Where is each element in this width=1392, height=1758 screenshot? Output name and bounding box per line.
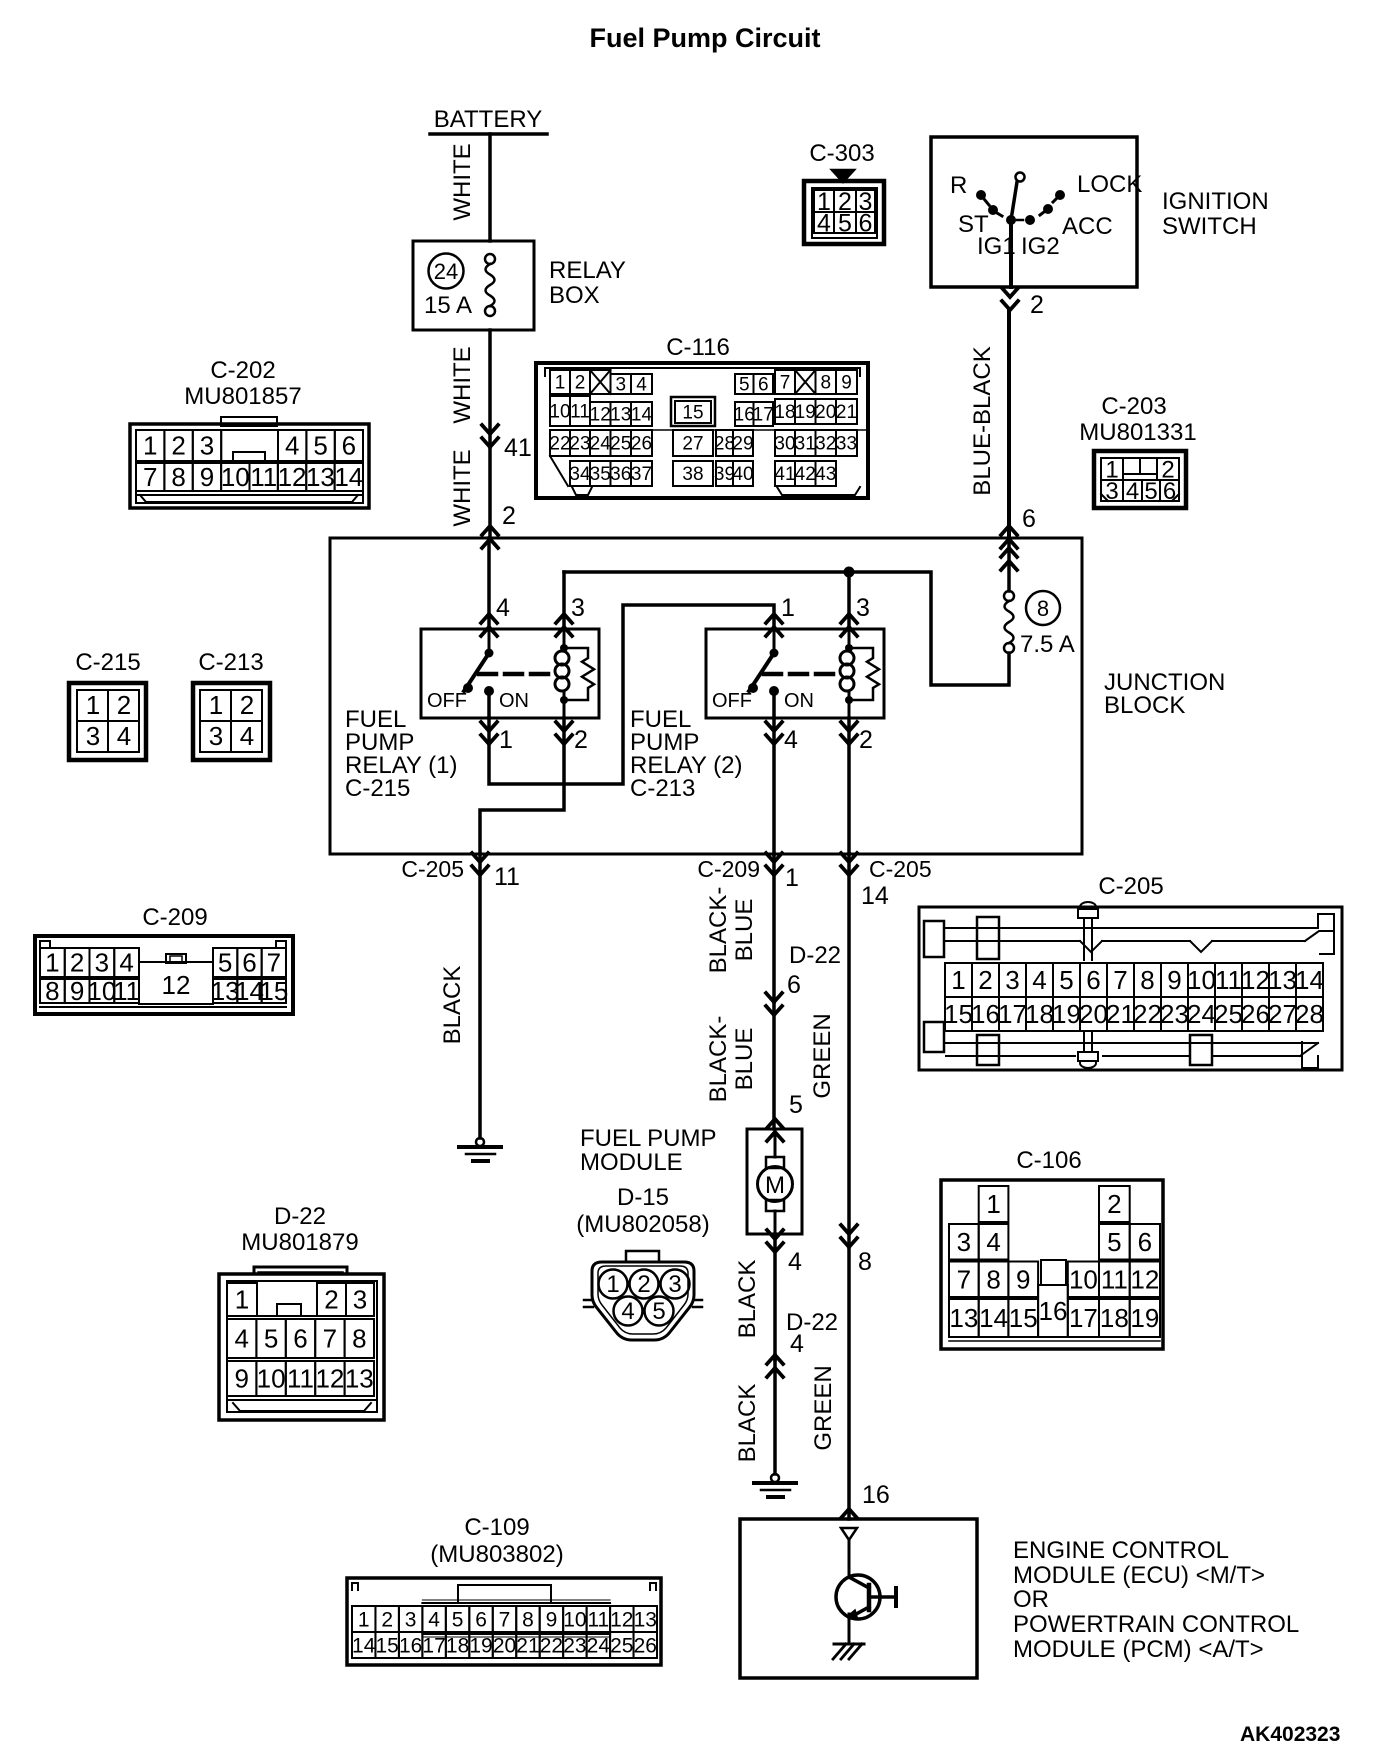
svg-text:13: 13 — [306, 462, 335, 492]
connector C-106 pins 7-12 — [949, 1262, 979, 1298]
svg-text:9: 9 — [234, 1364, 248, 1394]
wire battery to relay box (WHITE) — [488, 134, 492, 241]
svg-text:1: 1 — [358, 1608, 370, 1631]
svg-text:18: 18 — [1025, 999, 1054, 1029]
svg-text:14: 14 — [861, 882, 889, 910]
svg-text:42: 42 — [795, 464, 816, 485]
svg-text:4: 4 — [784, 726, 798, 754]
svg-text:8: 8 — [858, 1248, 872, 1276]
wire fuel pump module pin 4 (BLACK) — [773, 1234, 777, 1360]
connector D-15 body — [626, 1251, 659, 1262]
svg-text:43: 43 — [815, 464, 836, 485]
svg-text:4: 4 — [428, 1608, 440, 1631]
svg-text:38: 38 — [682, 464, 703, 485]
svg-text:D-15: D-15 — [617, 1184, 669, 1211]
svg-text:5: 5 — [264, 1324, 278, 1354]
svg-text:LOCK: LOCK — [1077, 171, 1142, 198]
svg-text:10: 10 — [221, 462, 250, 492]
svg-text:19: 19 — [795, 402, 816, 423]
svg-text:12: 12 — [162, 970, 191, 1000]
svg-text:2: 2 — [117, 690, 131, 720]
connector C-106 pin 1 — [979, 1186, 1009, 1222]
relay ON contact — [769, 686, 779, 696]
svg-text:24: 24 — [434, 259, 458, 284]
svg-text:C-215: C-215 — [345, 775, 410, 802]
connector C-116 body — [536, 363, 868, 498]
svg-text:21: 21 — [836, 402, 857, 423]
svg-text:4: 4 — [621, 1298, 634, 1325]
svg-text:10: 10 — [563, 1608, 586, 1631]
svg-text:18: 18 — [446, 1634, 469, 1657]
svg-text:OFF: OFF — [427, 690, 467, 712]
connector C-109 pins 14-26 — [352, 1632, 375, 1658]
svg-text:26: 26 — [634, 1634, 657, 1657]
svg-text:6: 6 — [1086, 965, 1100, 995]
svg-text:9: 9 — [1167, 965, 1181, 995]
svg-text:2: 2 — [381, 1608, 393, 1631]
svg-text:13: 13 — [345, 1364, 374, 1394]
svg-text:2: 2 — [502, 502, 516, 530]
svg-text:4: 4 — [636, 375, 647, 396]
svg-text:C-213: C-213 — [630, 775, 695, 802]
svg-text:15 A: 15 A — [424, 292, 472, 319]
svg-text:11: 11 — [1101, 1264, 1128, 1294]
connector C-205 body — [919, 907, 1342, 1070]
wire fuse 8 to relay coils — [564, 572, 1009, 685]
svg-text:D-22: D-22 — [789, 942, 841, 969]
connector C-106 pins 3-6 — [949, 1224, 979, 1260]
svg-text:MU801879: MU801879 — [241, 1229, 358, 1256]
svg-text:14: 14 — [631, 405, 653, 426]
svg-text:4: 4 — [117, 721, 131, 751]
svg-text:25: 25 — [610, 434, 631, 455]
relay box C-213 — [706, 629, 884, 718]
svg-text:21: 21 — [1106, 999, 1135, 1029]
svg-text:4: 4 — [496, 594, 510, 622]
svg-text:16: 16 — [971, 999, 1000, 1029]
svg-text:11: 11 — [113, 976, 140, 1006]
connector C-213 body — [193, 683, 270, 760]
fuse number circle 8 — [1026, 591, 1060, 625]
engine control module box — [740, 1519, 977, 1678]
svg-text:36: 36 — [610, 464, 631, 485]
svg-text:OFF: OFF — [712, 690, 752, 712]
svg-text:12: 12 — [610, 1608, 633, 1631]
svg-text:15: 15 — [944, 999, 973, 1029]
svg-text:ACC: ACC — [1062, 213, 1113, 240]
svg-text:1: 1 — [143, 431, 157, 461]
relay pin arrows bottom — [766, 722, 782, 731]
connector D-22 body — [254, 1267, 347, 1274]
svg-text:3: 3 — [615, 375, 626, 396]
svg-text:1: 1 — [86, 690, 100, 720]
connector C-109 body — [347, 1578, 661, 1665]
svg-text:6: 6 — [758, 375, 769, 396]
svg-text:15: 15 — [682, 403, 703, 424]
svg-text:28: 28 — [1295, 999, 1324, 1029]
svg-text:5: 5 — [1144, 478, 1157, 505]
chassis ground in ECM — [834, 1643, 864, 1646]
svg-text:16: 16 — [399, 1634, 422, 1657]
svg-text:34: 34 — [569, 464, 591, 485]
svg-text:1: 1 — [209, 690, 223, 720]
connector D-15 pin circles — [599, 1270, 628, 1299]
connector C-202 body — [221, 417, 277, 426]
svg-text:BATTERY: BATTERY — [434, 106, 542, 133]
svg-text:23: 23 — [1160, 999, 1189, 1029]
svg-text:14: 14 — [979, 1303, 1008, 1333]
svg-text:15: 15 — [1009, 1303, 1038, 1333]
wire coil bus to relay1 pin 3 — [562, 572, 566, 629]
svg-text:C-202: C-202 — [210, 357, 275, 384]
svg-text:21: 21 — [516, 1634, 539, 1657]
svg-text:27: 27 — [682, 434, 703, 455]
svg-text:23: 23 — [569, 434, 590, 455]
svg-text:11: 11 — [570, 402, 590, 423]
wire C-205 pin 14 to C-106 pin 8 (GREEN) — [847, 854, 851, 1247]
svg-text:12: 12 — [1130, 1264, 1159, 1294]
svg-text:1: 1 — [499, 726, 513, 754]
svg-text:2: 2 — [575, 373, 586, 394]
svg-text:BLACK-: BLACK- — [705, 1016, 732, 1103]
svg-text:IG2: IG2 — [1021, 233, 1060, 260]
svg-text:25: 25 — [1214, 999, 1243, 1029]
svg-text:14: 14 — [352, 1634, 376, 1657]
svg-text:17: 17 — [422, 1634, 445, 1657]
svg-text:2: 2 — [70, 948, 84, 978]
relay box — [413, 241, 534, 330]
connector D-22 pins row 3 — [227, 1361, 256, 1396]
svg-text:18: 18 — [774, 402, 795, 423]
svg-text:ON: ON — [499, 690, 529, 712]
svg-text:35: 35 — [590, 464, 611, 485]
connector C-106 body — [941, 1180, 1163, 1349]
svg-text:5: 5 — [313, 431, 327, 461]
connector C-303 index arrow — [832, 170, 854, 182]
svg-text:BOX: BOX — [549, 282, 600, 309]
svg-text:2: 2 — [1107, 1189, 1121, 1219]
svg-text:1: 1 — [235, 1285, 249, 1315]
connector C-116 pins 34-40 row — [570, 461, 590, 486]
junction exit C-205 pin 14 — [841, 853, 857, 862]
svg-text:33: 33 — [836, 434, 857, 455]
connector C-116 pins 16-21 row — [735, 402, 754, 426]
svg-text:6: 6 — [1163, 478, 1176, 505]
wire relay2 pin 4 down — [772, 718, 776, 854]
relay coil — [848, 629, 851, 651]
svg-text:10: 10 — [1069, 1264, 1098, 1294]
svg-text:17: 17 — [753, 405, 774, 426]
svg-text:7: 7 — [499, 1608, 511, 1631]
svg-text:15: 15 — [259, 976, 288, 1006]
relay pin arrows top — [481, 614, 497, 623]
connector C-106 pins 13-19 — [949, 1299, 979, 1337]
svg-text:22: 22 — [549, 434, 570, 455]
svg-text:8: 8 — [986, 1264, 1000, 1294]
svg-text:1: 1 — [781, 594, 795, 622]
svg-text:1: 1 — [785, 864, 799, 892]
svg-text:3: 3 — [200, 431, 214, 461]
svg-text:WHITE: WHITE — [449, 143, 476, 220]
svg-text:13: 13 — [610, 405, 631, 426]
svg-text:5: 5 — [789, 1091, 803, 1119]
svg-text:3: 3 — [1005, 965, 1019, 995]
svg-text:11: 11 — [287, 1364, 314, 1394]
wire C-205 pin 11 to body ground (BLACK) — [478, 854, 482, 1138]
svg-text:10: 10 — [87, 976, 116, 1006]
svg-text:3: 3 — [668, 1271, 681, 1298]
svg-text:3: 3 — [571, 594, 585, 622]
svg-text:BLACK: BLACK — [734, 1260, 761, 1339]
svg-text:6: 6 — [342, 431, 356, 461]
svg-text:6: 6 — [475, 1608, 487, 1631]
svg-text:4: 4 — [1032, 965, 1046, 995]
ignition switch contact R — [976, 190, 986, 200]
connector C-209 pin 12 cavity — [139, 962, 213, 1004]
svg-text:4: 4 — [119, 948, 133, 978]
wire relay2 pin 2 down — [847, 718, 851, 854]
svg-text:BLUE-BLACK: BLUE-BLACK — [969, 346, 996, 495]
svg-text:10: 10 — [1187, 965, 1216, 995]
svg-text:2: 2 — [637, 1271, 650, 1298]
svg-text:C-303: C-303 — [809, 140, 874, 167]
fuse number circle 24 — [429, 254, 464, 289]
svg-text:2: 2 — [574, 726, 588, 754]
svg-text:11: 11 — [587, 1608, 609, 1631]
svg-text:MU801857: MU801857 — [184, 383, 301, 410]
svg-text:7: 7 — [267, 948, 281, 978]
svg-text:7: 7 — [323, 1324, 337, 1354]
fuel pump motor M — [774, 1129, 777, 1157]
svg-text:C-205: C-205 — [401, 856, 464, 882]
wire C-116 to junction block (WHITE) — [488, 447, 492, 538]
svg-text:20: 20 — [1079, 999, 1108, 1029]
connector C-205 latch bottom — [977, 1035, 999, 1065]
svg-text:BLACK: BLACK — [734, 1384, 761, 1463]
svg-text:7: 7 — [957, 1264, 971, 1294]
wire ignition switch IG1 output pin 2 (BLUE-BLACK) — [1009, 220, 1013, 287]
connector C-116 pin 15 — [671, 397, 715, 426]
svg-text:C-209: C-209 — [142, 904, 207, 931]
svg-text:BLUE: BLUE — [731, 899, 758, 962]
relay pin arrows top — [766, 614, 782, 623]
connector C-209 body — [35, 936, 293, 1014]
svg-text:MODULE (ECU) <M/T>: MODULE (ECU) <M/T> — [1013, 1562, 1265, 1589]
relay actuation dashed link — [764, 672, 841, 677]
svg-text:9: 9 — [1016, 1264, 1030, 1294]
connector C-109 pins 1-13 — [352, 1606, 375, 1632]
svg-text:3: 3 — [957, 1227, 971, 1257]
svg-text:19: 19 — [1130, 1303, 1159, 1333]
svg-text:2: 2 — [240, 690, 254, 720]
svg-text:3: 3 — [405, 1608, 417, 1631]
wire junction block top to fuse 8 — [1007, 538, 1011, 591]
svg-text:GREEN: GREEN — [810, 1365, 837, 1450]
ECM input triangle pin 16 — [841, 1528, 857, 1540]
wire relay1 pin 4 from junction top — [487, 538, 491, 629]
transistor Q driver — [836, 1575, 880, 1619]
svg-text:FUEL PUMP: FUEL PUMP — [580, 1125, 716, 1152]
svg-text:1: 1 — [951, 965, 965, 995]
ground left — [476, 1138, 484, 1146]
svg-text:8: 8 — [45, 976, 59, 1006]
ignition switch rotor lever — [1016, 173, 1025, 182]
svg-text:9: 9 — [70, 976, 84, 1006]
connector D-22 pins row 1 — [227, 1283, 257, 1316]
connector C-116 pins 1-4 row — [550, 370, 570, 394]
svg-text:7: 7 — [1113, 965, 1127, 995]
svg-text:1: 1 — [606, 1271, 619, 1298]
svg-text:9: 9 — [200, 462, 214, 492]
wire relay1 pin 2 to C-205 pin 11 — [480, 718, 564, 854]
connector D-22 pins row 2 — [227, 1319, 256, 1358]
ignition switch box — [931, 137, 1137, 287]
connector C-303 body — [804, 181, 884, 244]
svg-text:6: 6 — [787, 971, 801, 999]
svg-text:ENGINE CONTROL: ENGINE CONTROL — [1013, 1537, 1229, 1564]
fuel pump module box — [747, 1129, 802, 1234]
svg-text:29: 29 — [732, 434, 753, 455]
svg-text:24: 24 — [1187, 999, 1216, 1029]
svg-text:5: 5 — [1107, 1227, 1121, 1257]
svg-text:22: 22 — [540, 1634, 563, 1657]
svg-text:4: 4 — [234, 1324, 248, 1354]
connector C-109 hatch strips — [422, 1602, 610, 1604]
svg-text:11: 11 — [250, 462, 277, 492]
svg-text:3: 3 — [856, 594, 870, 622]
connector C-205 pins — [945, 963, 972, 997]
svg-text:SWITCH: SWITCH — [1162, 213, 1257, 240]
svg-text:6: 6 — [1138, 1227, 1152, 1257]
svg-text:23: 23 — [563, 1634, 586, 1657]
svg-text:BLACK: BLACK — [439, 966, 466, 1045]
connector C-116 pins 5-9 row — [735, 374, 754, 394]
fuse F24 element — [485, 254, 495, 264]
svg-text:R: R — [950, 172, 967, 199]
connector C-215 body — [69, 683, 146, 760]
svg-text:(MU803802): (MU803802) — [430, 1541, 563, 1568]
svg-text:11: 11 — [1215, 965, 1242, 995]
svg-text:3: 3 — [86, 721, 100, 751]
svg-text:D-22: D-22 — [274, 1203, 326, 1230]
svg-text:16: 16 — [734, 405, 755, 426]
svg-text:32: 32 — [815, 434, 836, 455]
svg-text:26: 26 — [1241, 999, 1270, 1029]
svg-text:26: 26 — [631, 434, 652, 455]
wire coil bus to relay2 pin 3 — [847, 572, 851, 629]
svg-text:BLUE: BLUE — [731, 1028, 758, 1091]
relay switch lever — [488, 629, 491, 653]
relay coil parallel resistor — [849, 648, 879, 700]
svg-text:C-213: C-213 — [198, 649, 263, 676]
svg-text:5: 5 — [1059, 965, 1073, 995]
wire transistor emitter to chassis ground — [848, 1614, 851, 1644]
svg-text:2: 2 — [978, 965, 992, 995]
svg-text:2: 2 — [1030, 291, 1044, 319]
connector C-116 bottom details — [550, 456, 568, 486]
svg-text:40: 40 — [732, 464, 753, 485]
wire relay1 pin 1 to relay2 pin 1 — [489, 605, 774, 784]
relay box C-215 — [421, 629, 599, 718]
svg-text:25: 25 — [610, 1634, 633, 1657]
svg-text:8: 8 — [820, 373, 831, 394]
svg-text:7: 7 — [780, 373, 791, 394]
svg-text:8: 8 — [522, 1608, 534, 1631]
svg-text:C-203: C-203 — [1101, 393, 1166, 420]
svg-text:11: 11 — [494, 863, 520, 891]
ground middle — [771, 1474, 779, 1482]
svg-text:2: 2 — [324, 1285, 338, 1315]
svg-text:10: 10 — [257, 1364, 286, 1394]
wire triangle to transistor — [848, 1540, 851, 1577]
wire C-106 pin 8 to ECM pin 16 (GREEN) — [847, 1247, 851, 1519]
svg-text:22: 22 — [1133, 999, 1162, 1029]
svg-text:ON: ON — [784, 690, 814, 712]
wire junction coil bus node — [844, 567, 855, 578]
svg-text:3: 3 — [353, 1285, 367, 1315]
svg-text:37: 37 — [631, 464, 652, 485]
svg-text:16: 16 — [1038, 1296, 1067, 1326]
svg-text:2: 2 — [859, 726, 873, 754]
fuse F8 element — [1004, 591, 1014, 601]
relay coil — [563, 629, 566, 651]
relay pin arrows bottom — [481, 722, 497, 731]
svg-text:14: 14 — [334, 462, 363, 492]
junction block box — [330, 538, 1082, 854]
svg-text:M: M — [765, 1172, 785, 1199]
svg-text:4: 4 — [240, 721, 254, 751]
svg-text:Fuel Pump Circuit: Fuel Pump Circuit — [589, 23, 820, 53]
svg-text:13: 13 — [634, 1608, 657, 1631]
relay coil parallel resistor — [564, 648, 594, 700]
ignition switch contact IG2 — [1025, 215, 1035, 225]
connector C-116 pins 41-43 row — [775, 461, 795, 486]
svg-text:5: 5 — [739, 375, 750, 396]
svg-text:4: 4 — [790, 1330, 804, 1358]
svg-text:15: 15 — [376, 1634, 399, 1657]
svg-text:12: 12 — [590, 405, 611, 426]
svg-text:4: 4 — [285, 431, 299, 461]
svg-text:6: 6 — [242, 948, 256, 978]
svg-text:12: 12 — [1241, 965, 1270, 995]
svg-text:17: 17 — [1069, 1303, 1098, 1333]
svg-text:6: 6 — [1022, 505, 1036, 533]
svg-text:3: 3 — [209, 721, 223, 751]
svg-text:AK402323: AK402323 — [1240, 1723, 1340, 1746]
svg-text:4: 4 — [986, 1227, 1000, 1257]
svg-text:MODULE (PCM) <A/T>: MODULE (PCM) <A/T> — [1013, 1636, 1264, 1663]
svg-text:19: 19 — [1052, 999, 1081, 1029]
svg-text:41: 41 — [504, 434, 532, 462]
wire C-209 pin 1 to D-22 pin 6 (BLACK-BLUE) — [772, 854, 776, 1002]
svg-text:41: 41 — [774, 464, 795, 485]
svg-text:7: 7 — [143, 462, 157, 492]
connector C-106 pin 2 — [1099, 1186, 1130, 1222]
svg-text:14: 14 — [1295, 965, 1324, 995]
svg-text:8: 8 — [1140, 965, 1154, 995]
connector C-116 pins 22-29 row — [550, 429, 868, 431]
svg-text:30: 30 — [774, 434, 795, 455]
svg-text:9: 9 — [546, 1608, 558, 1631]
svg-text:27: 27 — [1268, 999, 1297, 1029]
svg-text:9: 9 — [841, 373, 852, 394]
ignition switch contact ST — [988, 205, 998, 215]
connector C-205 latch top — [924, 921, 944, 957]
wire ignition switch to junction block (BLUE-BLACK) — [1007, 310, 1011, 538]
svg-text:6: 6 — [293, 1324, 307, 1354]
ignition switch contact LOCK — [1055, 190, 1065, 200]
arrow into C-116 — [482, 425, 498, 434]
